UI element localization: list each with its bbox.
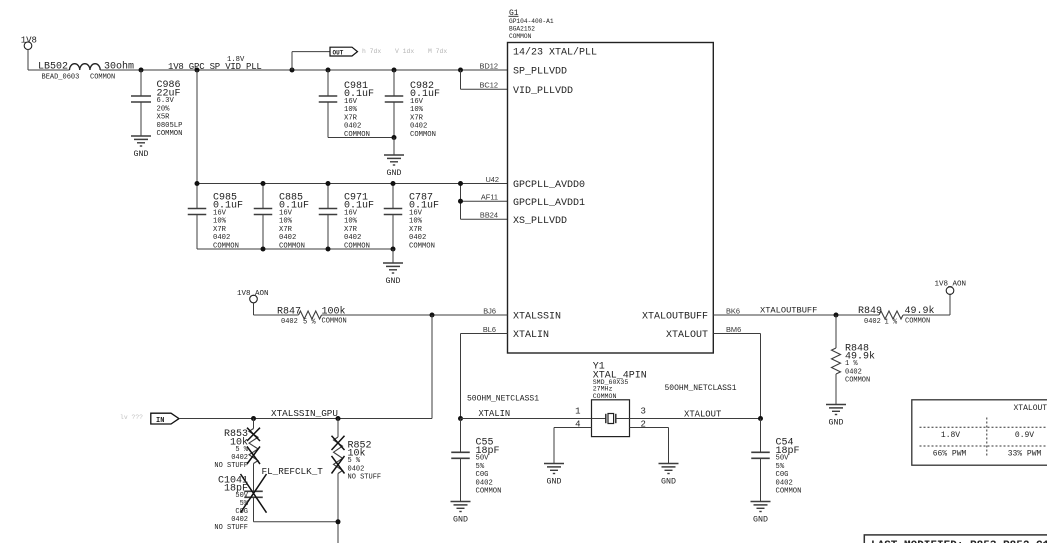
svg-text:20%: 20% [157,105,171,113]
ground under C986 [131,136,151,159]
wire row2 bus [197,183,461,185]
svg-text:33% PWM: 33% PWM [1008,449,1042,458]
junction row2 top C787 [391,181,396,186]
svg-text:0402: 0402 [279,234,296,242]
wire row2 gnd stub [392,249,394,263]
svg-text:3: 3 [641,406,646,416]
resistor R852 10k NO STUFF [332,419,382,543]
wire R849 to 1V8_AON [903,294,950,315]
svg-text:XTALOUTBUFF: XTALOUTBUFF [760,305,817,315]
svg-text:C0G: C0G [776,471,789,479]
ground under C55 [451,502,471,525]
svg-text:NO STUFF: NO STUFF [214,524,248,532]
resistor R848 49.9k [832,315,876,405]
pin number 2 [641,419,646,429]
svg-text:LB502: LB502 [38,62,68,73]
svg-text:50OHM_NETCLASS1: 50OHM_NETCLASS1 [665,384,737,393]
pin number 1 [575,406,580,416]
svg-text:27MHz: 27MHz [593,386,613,393]
ground under C54 [751,502,771,525]
svg-text:16V: 16V [410,98,424,106]
svg-text:1V8 GPC SP VID PLL: 1V8 GPC SP VID PLL [168,62,262,72]
junction row2 top right [458,181,463,186]
junction on bus at BC12 drop [458,68,463,73]
capacitor C1041 18pF NO STUFF [214,464,266,533]
svg-text:1 %: 1 % [845,360,858,368]
svg-text:M 7dx: M 7dx [428,48,447,55]
resistor R853 10k NO STUFF [214,419,260,471]
svg-text:XTALOUT: XTALOUT [1014,404,1047,413]
junction row2 top C971 [326,181,331,186]
svg-text:VID_PLLVDD: VID_PLLVDD [513,86,573,97]
OUT flag [330,47,358,56]
ground at crystal pin2 [659,464,679,487]
capacitor C985 0.1uF [188,184,243,251]
wire row2 bottom [197,248,393,250]
junction on bus at C982 [392,68,397,73]
svg-text:0402: 0402 [344,123,361,131]
svg-text:0805LP: 0805LP [157,122,183,130]
svg-text:5%: 5% [240,500,249,508]
node XTALOUTBUFF [760,305,817,315]
svg-text:X7R: X7R [279,226,293,234]
svg-text:BB24: BB24 [480,211,498,220]
title box (partial) [864,535,1047,543]
IC G1 GP104-400-A1 box [508,43,714,354]
svg-text:0402: 0402 [281,318,298,326]
svg-text:0402: 0402 [776,479,793,487]
svg-text:1.8V: 1.8V [941,431,960,440]
svg-text:5 %: 5 % [303,319,316,327]
svg-text:GND: GND [661,478,676,487]
node 1V8_GPC_SP_VID_PLL [168,56,262,72]
svg-text:1: 1 [575,406,580,416]
svg-text:h 7dx: h 7dx [362,48,381,55]
junction bottom wire [336,519,341,524]
svg-text:10%: 10% [279,218,293,226]
svg-text:COMMON: COMMON [776,488,802,496]
svg-text:BL6: BL6 [483,325,496,334]
wire crystal pin2 to gnd [630,428,669,464]
svg-text:COMMON: COMMON [409,242,435,250]
svg-text:5%: 5% [776,463,785,471]
wire crystal pin4 to gnd [554,428,592,464]
svg-text:COMMON: COMMON [90,73,115,81]
svg-text:COMMON: COMMON [593,393,617,400]
junction at C982 bottom [392,135,397,140]
net attribute text gray (IN) [120,414,143,421]
svg-text:1V8: 1V8 [21,35,37,45]
svg-text:BJ6: BJ6 [483,306,496,315]
annotation table XTALOUT levels [912,400,1047,465]
svg-text:1V8_AON: 1V8_AON [935,281,967,289]
svg-text:BK6: BK6 [726,306,740,315]
svg-text:10%: 10% [409,218,423,226]
svg-text:GND: GND [386,277,401,286]
svg-text:10%: 10% [213,218,227,226]
wire gnd stub [393,138,395,156]
wire XTALOUTBUFF [713,314,879,316]
ground under row2 caps [383,263,403,286]
junction row2 bottom [326,247,331,252]
power 1V8 [21,35,37,49]
svg-text:NO STUFF: NO STUFF [348,473,382,481]
node FL_REFCLK_T [262,466,324,477]
svg-text:GPCPLL_AVDD0: GPCPLL_AVDD0 [513,180,585,191]
svg-text:0402: 0402 [231,516,248,524]
svg-text:16V: 16V [213,209,227,217]
ground under R848 [826,405,846,428]
wire 1V8_AON to R847 [254,303,299,316]
capacitor C986 22uF [131,70,182,138]
svg-text:U42: U42 [485,175,499,184]
wire XTALSSIN drop [431,315,433,419]
svg-text:COMMON: COMMON [509,33,532,40]
wire XTALIN from BL6 [461,334,508,419]
svg-text:R849: R849 [858,306,882,317]
junction row2 bottom [391,247,396,252]
power 1V8_AON right [935,281,967,295]
wire XTALIN to crystal [461,418,592,420]
svg-text:OUT: OUT [333,49,344,56]
svg-text:IN: IN [156,417,164,425]
svg-text:GND: GND [829,419,844,428]
node 50OHM_NETCLASS1 right [665,384,737,393]
wire R847 to BJ6 [322,314,508,316]
resistor R847 100k [277,305,347,326]
net attribute text (gray) [362,48,447,55]
junction R853 tap [251,416,256,421]
svg-text:0402: 0402 [344,234,361,242]
junction R852 tap [336,416,341,421]
ground under C981/C982 [384,155,404,178]
junction row2 top C985 [195,181,200,186]
svg-text:30ohm: 30ohm [104,61,134,73]
crystal Y1 labels [593,362,647,400]
svg-text:XTALSSIN_GPU: XTALSSIN_GPU [271,408,338,419]
pin number labels [480,61,742,334]
svg-text:BM6: BM6 [726,325,741,334]
svg-text:C0G: C0G [476,471,489,479]
capacitor C981 0.1uF [319,70,374,139]
IC G1 refdes block [509,9,554,40]
svg-text:5 %: 5 % [235,446,248,454]
wire bottom stub [254,521,339,523]
svg-text:0402: 0402 [476,479,493,487]
wire drop to row2 bus [196,70,198,184]
capacitor C971 0.1uF [319,184,374,251]
svg-text:0402: 0402 [410,123,427,131]
svg-text:XS_PLLVDD: XS_PLLVDD [513,216,567,227]
svg-text:AF11: AF11 [481,193,498,202]
capacitor C982 0.1uF [385,70,440,139]
wire 1V8 to inductor [28,50,70,71]
svg-text:50OHM_NETCLASS1: 50OHM_NETCLASS1 [467,395,539,404]
junction row2 bottom [261,247,266,252]
svg-text:X7R: X7R [344,114,358,122]
svg-text:GND: GND [387,169,402,178]
svg-text:1 %: 1 % [885,319,898,327]
node XTALIN [479,409,511,419]
IN flag [151,413,179,425]
svg-text:50V: 50V [235,492,248,500]
svg-text:X7R: X7R [409,226,423,234]
svg-text:16V: 16V [344,209,358,217]
junction row2 top C885 [261,181,266,186]
svg-text:50V: 50V [776,455,790,463]
svg-text:16V: 16V [279,209,293,217]
svg-text:BD12: BD12 [480,61,499,70]
capacitor C55 18pF [451,419,501,502]
ground at crystal pin4 [544,464,564,487]
node XTALOUT [684,410,721,420]
pin number 4 [575,419,580,429]
junction on bus at C986 [139,68,144,73]
svg-text:GPCPLL_AVDD1: GPCPLL_AVDD1 [513,198,585,209]
junction R847/XTALSSIN [430,313,435,318]
wire XTALSSIN_GPU [179,418,432,420]
svg-text:0402: 0402 [231,454,248,462]
wire BM6 to XTALOUT [713,334,760,419]
svg-text:0.9V: 0.9V [1015,431,1034,440]
svg-text:10%: 10% [344,218,358,226]
svg-text:COMMON: COMMON [476,488,502,496]
svg-text:GND: GND [453,516,468,525]
svg-text:X7R: X7R [213,226,227,234]
svg-text:5 %: 5 % [348,457,361,465]
svg-text:16V: 16V [344,98,358,106]
svg-text:COMMON: COMMON [905,318,930,326]
svg-text:14/23 XTAL/PLL: 14/23 XTAL/PLL [513,46,597,58]
svg-text:1.8V: 1.8V [227,56,245,64]
junction XTALIN [458,416,463,421]
svg-text:COMMON: COMMON [845,376,870,384]
svg-text:SP_PLLVDD: SP_PLLVDD [513,67,567,78]
wire XTALOUT from crystal [630,418,761,420]
wire to OUT flag [292,52,330,70]
svg-text:0402: 0402 [409,234,426,242]
power 1V8_AON left [237,290,269,303]
svg-text:GND: GND [134,150,149,159]
wire 1V8 bus [100,69,507,71]
wire C981-C982 bottom [328,137,394,139]
svg-text:X7R: X7R [344,226,358,234]
node XTALSSIN_GPU [271,408,338,419]
svg-text:GND: GND [547,478,562,487]
svg-text:XTALSSIN: XTALSSIN [513,312,561,323]
svg-text:X5R: X5R [157,114,171,122]
svg-text:lv ???: lv ??? [120,414,143,421]
svg-text:0402: 0402 [213,234,230,242]
svg-text:COMMON: COMMON [322,318,347,326]
svg-text:BEAD_0603: BEAD_0603 [42,73,80,81]
svg-text:1V8_AON: 1V8_AON [237,290,269,298]
svg-text:NO STUFF: NO STUFF [214,462,248,470]
wire row2 bus to U42 [461,183,508,185]
svg-text:66% PWM: 66% PWM [933,449,967,458]
junction on bus at row2 drop [195,68,200,73]
svg-text:0402: 0402 [845,368,862,376]
resistor R849 49.9k [858,305,935,327]
wire drop BC12 [461,70,508,89]
svg-text:0402: 0402 [864,318,881,326]
svg-text:50V: 50V [476,455,490,463]
svg-text:5%: 5% [476,463,485,471]
svg-text:XTALIN: XTALIN [513,330,549,341]
junction XTALOUT [758,416,763,421]
svg-text:XTALOUT: XTALOUT [684,410,721,420]
capacitor C885 0.1uF [254,184,309,251]
svg-text:GP104-400-A1: GP104-400-A1 [509,18,554,25]
svg-text:BGA2152: BGA2152 [509,26,535,33]
svg-text:COMMON: COMMON [410,131,436,139]
svg-text:V 1dx: V 1dx [395,48,414,55]
svg-text:16V: 16V [409,209,423,217]
svg-text:X7R: X7R [410,114,424,122]
junction row2 AF11 [458,199,463,204]
svg-text:0402: 0402 [348,465,365,473]
svg-text:C0G: C0G [235,508,248,516]
inductor LB502 30ohm [38,61,134,82]
svg-text:BC12: BC12 [480,81,499,90]
svg-text:XTALOUTBUFF: XTALOUTBUFF [642,312,708,323]
svg-text:XTALIN: XTALIN [479,409,511,419]
crystal Y1 XTAL_4PIN [592,400,630,437]
capacitor C54 18pF [751,419,801,502]
svg-text:10%: 10% [410,106,424,114]
svg-text:6.3V: 6.3V [157,97,175,105]
svg-text:COMMON: COMMON [157,130,183,138]
junction on bus at OUT riser [290,68,295,73]
svg-text:XTALOUT: XTALOUT [666,330,708,341]
node 50OHM_NETCLASS1 left [467,395,539,404]
svg-text:FL_REFCLK_T: FL_REFCLK_T [262,466,324,477]
capacitor C787 0.1uF [384,184,439,251]
svg-text:10%: 10% [344,106,358,114]
pin number 3 [641,406,646,416]
wire AF11/BB24 drop [461,184,508,220]
svg-text:R847: R847 [277,306,301,317]
svg-text:GND: GND [753,516,768,525]
junction on bus at C981 [326,68,331,73]
junction R848 tap [834,313,839,318]
